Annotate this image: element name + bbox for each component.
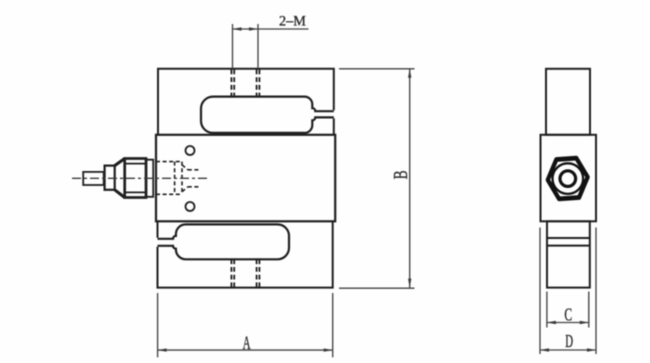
connector hidden thread (dashed)	[156, 162, 200, 195]
middle block	[156, 135, 335, 222]
dimension C extension lines	[546, 292, 548, 328]
dimension B arrows	[408, 69, 411, 288]
dimension D extension lines	[539, 228, 541, 355]
dimensions	[158, 24, 596, 357]
svg-text:2–M: 2–M	[279, 14, 306, 30]
hex plug body	[125, 159, 146, 198]
svg-text:A: A	[243, 333, 251, 354]
dimension B dimension line	[409, 69, 411, 288]
bushing	[105, 166, 115, 190]
lower slot	[158, 224, 290, 259]
dimension A arrows	[158, 348, 333, 351]
screw hole top	[186, 146, 195, 155]
bottom block	[158, 221, 333, 287]
side view hex nut connector	[546, 157, 589, 199]
dimension 2-M arrows	[233, 27, 259, 30]
svg-text:D: D	[565, 331, 573, 351]
bottom tapped holes (hidden lines)	[231, 259, 259, 287]
dimension C arrows	[547, 321, 589, 324]
upper slot	[201, 97, 334, 133]
cable connector	[83, 159, 153, 198]
taper	[115, 159, 125, 198]
dimension C dimension line	[547, 322, 589, 324]
dimension D arrows	[540, 348, 596, 351]
side view middle block	[541, 135, 597, 222]
svg-text:B: B	[391, 171, 412, 180]
cable stub	[83, 172, 104, 185]
connector centerline	[72, 177, 207, 179]
screw hole bottom	[186, 202, 195, 211]
side view top block	[546, 69, 590, 135]
top block	[158, 69, 334, 135]
side view bottom block	[547, 221, 590, 287]
2-M tapped holes (hidden lines)	[231, 70, 259, 97]
svg-text:C: C	[564, 304, 572, 324]
dimension A extension lines	[157, 293, 159, 357]
dimension A dimension line	[158, 349, 333, 351]
dimension 2-M dimension line	[233, 28, 309, 30]
dimension B extension lines	[339, 68, 415, 70]
dimension 2-M extension lines	[232, 24, 234, 69]
flange	[146, 160, 153, 197]
dimension D dimension line	[540, 349, 596, 351]
